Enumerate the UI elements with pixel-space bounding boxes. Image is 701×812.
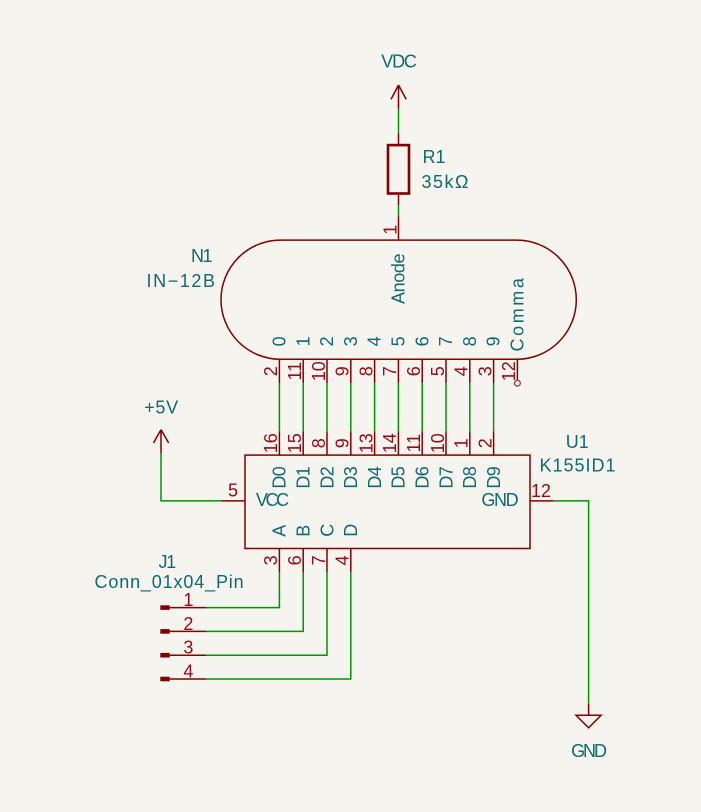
tube pin 2 <box>278 359 280 383</box>
tube pin 11 <box>302 359 304 383</box>
pin 6 B <box>302 549 304 573</box>
svg-text:D0: D0 <box>270 466 290 488</box>
pin 3 A <box>278 549 280 573</box>
svg-text:D5: D5 <box>389 466 409 488</box>
svg-text:2: 2 <box>183 614 193 634</box>
svg-text:5: 5 <box>389 336 409 346</box>
pin 10 D7 <box>445 431 447 455</box>
svg-text:4: 4 <box>365 336 385 346</box>
svg-text:D9: D9 <box>484 466 504 488</box>
svg-text:K155ID1: K155ID1 <box>540 456 617 476</box>
svg-text:11: 11 <box>285 362 305 381</box>
svg-text:U1: U1 <box>566 432 589 452</box>
svg-text:3: 3 <box>341 336 361 346</box>
svg-text:2: 2 <box>317 336 337 346</box>
svg-text:3: 3 <box>183 638 193 658</box>
svg-text:R1: R1 <box>423 147 446 167</box>
pin 12 GND <box>530 500 554 502</box>
svg-text:14: 14 <box>380 433 400 453</box>
svg-text:VCC: VCC <box>256 490 289 510</box>
svg-text:D6: D6 <box>413 466 433 488</box>
tube body <box>221 240 576 359</box>
svg-text:10: 10 <box>309 361 329 381</box>
svg-text:D: D <box>341 524 361 537</box>
svg-text:A: A <box>270 525 290 537</box>
connector J1 <box>95 552 245 681</box>
svg-text:1: 1 <box>183 590 193 610</box>
svg-text:4: 4 <box>333 555 353 565</box>
pin 1 <box>160 605 169 610</box>
svg-text:12: 12 <box>531 481 551 501</box>
pin 14 D5 <box>397 431 399 455</box>
pin 3 <box>160 653 169 658</box>
tube pin 7 <box>397 359 399 383</box>
pin 8 D2 <box>326 431 328 455</box>
tube pin 12 comma unconnected <box>516 359 518 380</box>
svg-text:9: 9 <box>484 336 504 346</box>
svg-text:7: 7 <box>309 555 329 565</box>
svg-text:1: 1 <box>452 438 472 448</box>
svg-text:D3: D3 <box>341 466 361 488</box>
tube pin 4 <box>469 359 471 383</box>
wire J1 pin1 to U1 A <box>206 572 279 607</box>
svg-text:6: 6 <box>285 555 305 565</box>
svg-text:13: 13 <box>356 433 376 453</box>
svg-text:4: 4 <box>452 366 472 376</box>
body <box>245 455 530 548</box>
ground symbol GND <box>571 704 607 761</box>
wire tube pin6 to U1 pin11 <box>421 383 423 431</box>
svg-text:0: 0 <box>270 336 290 346</box>
IC U1 K155ID1 <box>221 431 616 572</box>
wire tube pin9 to U1 pin9 <box>350 383 352 431</box>
pin 2 D9 <box>493 431 495 455</box>
svg-text:GND: GND <box>481 490 518 510</box>
pin 1 D8 <box>469 431 471 455</box>
svg-text:4: 4 <box>183 661 193 681</box>
pin 11 D6 <box>421 431 423 455</box>
svg-text:35kΩ: 35kΩ <box>422 172 470 192</box>
svg-text:J1: J1 <box>159 552 177 572</box>
wire tube pin8 to U1 pin13 <box>374 383 376 431</box>
wire tube pin4 to U1 pin1 <box>469 383 471 431</box>
pin 5 VCC <box>221 500 245 502</box>
svg-text:1: 1 <box>380 225 400 235</box>
svg-text:+5V: +5V <box>144 398 179 418</box>
pin 4 D <box>350 549 352 573</box>
resistor R1 <box>388 133 470 205</box>
svg-text:IN−12B: IN−12B <box>147 271 217 291</box>
svg-text:8: 8 <box>309 438 329 448</box>
wire J1 pin2 to U1 B <box>206 572 303 631</box>
pin 4 <box>160 677 169 682</box>
svg-text:2: 2 <box>475 438 495 448</box>
svg-text:GND: GND <box>571 741 607 761</box>
svg-text:5: 5 <box>228 481 238 501</box>
svg-text:1: 1 <box>293 336 313 346</box>
svg-text:5: 5 <box>428 366 448 376</box>
svg-text:3: 3 <box>261 555 281 565</box>
svg-text:D1: D1 <box>294 466 314 488</box>
svg-text:9: 9 <box>333 438 353 448</box>
tube pin 6 <box>421 359 423 383</box>
wire tube pin7 to U1 pin14 <box>397 383 399 431</box>
svg-text:3: 3 <box>475 366 495 376</box>
svg-text:C: C <box>317 524 337 537</box>
svg-text:VDC: VDC <box>381 52 417 72</box>
wire R1 to N1 anode <box>398 205 400 216</box>
svg-text:7: 7 <box>380 366 400 376</box>
pin 16 D0 <box>278 431 280 455</box>
tube pin 10 <box>326 359 328 383</box>
tube pin 5 <box>445 359 447 383</box>
svg-text:8: 8 <box>356 366 376 376</box>
svg-text:15: 15 <box>285 433 305 453</box>
wire tube pin3 to U1 pin2 <box>493 383 495 431</box>
wire +5V to U1 VCC <box>161 453 221 501</box>
svg-text:B: B <box>294 525 314 537</box>
wire tube pin11 to U1 pin15 <box>302 383 304 431</box>
svg-text:D2: D2 <box>317 466 337 488</box>
wire tube pin2 to U1 pin16 <box>278 383 280 431</box>
svg-text:Conn_01x04_Pin: Conn_01x04_Pin <box>95 572 245 593</box>
svg-text:10: 10 <box>428 433 448 453</box>
wire U1 GND pin to ground <box>554 501 589 704</box>
svg-text:16: 16 <box>261 433 281 453</box>
pin 1 anode <box>398 216 400 240</box>
svg-text:D7: D7 <box>436 466 456 488</box>
pin 2 <box>160 629 169 634</box>
svg-text:9: 9 <box>333 366 353 376</box>
pin 7 C <box>326 549 328 573</box>
wire J1 pin3 to U1 C <box>206 572 327 655</box>
svg-text:Comma: Comma <box>508 275 528 351</box>
wire J1 pin4 to U1 D <box>206 572 351 679</box>
tube pin 9 <box>350 359 352 383</box>
pin 13 D4 <box>374 431 376 455</box>
svg-text:D8: D8 <box>460 466 480 488</box>
wire VDC to R1 <box>398 109 400 134</box>
wire tube pin10 to U1 pin8 <box>326 383 328 431</box>
nixie tube N1 <box>147 216 577 386</box>
power symbol +5V <box>144 398 179 454</box>
svg-text:6: 6 <box>412 336 432 346</box>
tube pin 8 <box>374 359 376 383</box>
svg-text:6: 6 <box>404 366 424 376</box>
svg-text:D4: D4 <box>365 466 385 488</box>
svg-text:N1: N1 <box>191 246 212 266</box>
power symbol VDC <box>381 52 417 109</box>
wire tube pin5 to U1 pin10 <box>445 383 447 431</box>
svg-text:2: 2 <box>261 366 281 376</box>
svg-text:8: 8 <box>460 336 480 346</box>
svg-text:11: 11 <box>404 434 424 453</box>
svg-text:12: 12 <box>499 361 519 381</box>
pin 15 D1 <box>302 431 304 455</box>
pin 9 D3 <box>350 431 352 455</box>
svg-text:Anode: Anode <box>389 254 409 304</box>
svg-text:7: 7 <box>436 336 456 346</box>
tube pin 3 <box>493 359 495 383</box>
